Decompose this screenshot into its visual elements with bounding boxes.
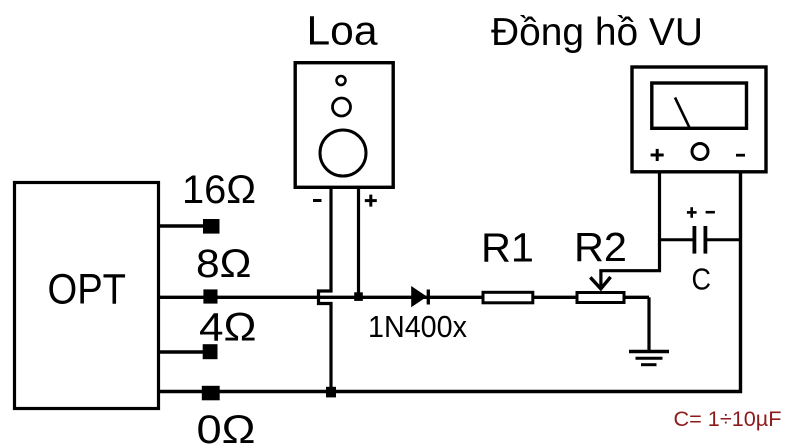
- label speaker minus: [313, 199, 322, 202]
- wire VU plus to capacitor C: [660, 238, 694, 241]
- diode D 1N400x: [411, 286, 427, 307]
- wire 16Ω tap: [158, 224, 206, 227]
- speaker tweeter circle: [337, 76, 346, 85]
- VU meter needle: [675, 98, 690, 129]
- svg-text:8Ω: 8Ω: [196, 242, 252, 286]
- label speaker plus: [365, 195, 377, 207]
- terminal 4Ω: [203, 344, 218, 359]
- svg-text:R2: R2: [574, 224, 627, 270]
- svg-text:1N400x: 1N400x: [368, 310, 467, 344]
- wire 4Ω tap: [158, 350, 206, 353]
- VU meter minus terminal mark: [736, 154, 745, 157]
- junction speaker minus on 0Ω rail: [326, 387, 336, 398]
- resistor R1: [483, 292, 533, 303]
- svg-text:0Ω: 0Ω: [197, 408, 256, 446]
- wire capacitor C to VU minus: [707, 238, 741, 241]
- svg-text:R1: R1: [481, 225, 534, 271]
- capacitor C minus label: [706, 211, 715, 214]
- wire 8Ω main signal line: [158, 296, 649, 299]
- wire 0Ω ground rail to VU meter minus: [158, 171, 741, 392]
- terminal 8Ω: [203, 289, 217, 303]
- svg-text:Loa: Loa: [307, 8, 378, 54]
- potentiometer R2 body: [577, 293, 624, 303]
- VU meter screw circle: [692, 144, 708, 160]
- terminal 0Ω: [202, 386, 220, 401]
- VU meter outer box: [632, 67, 766, 172]
- svg-text:16Ω: 16Ω: [182, 168, 256, 212]
- wire speaker plus to 8Ω line: [357, 189, 360, 297]
- speaker Loa box: [295, 63, 393, 188]
- svg-text:C: C: [692, 262, 712, 297]
- svg-text:4Ω: 4Ω: [199, 306, 257, 350]
- VU meter plus terminal mark: [651, 149, 664, 161]
- potentiometer R2 wiper arrowhead: [590, 277, 610, 289]
- wire speaker minus with crossover jog to 0Ω rail: [319, 189, 332, 392]
- svg-text:OPT: OPT: [48, 267, 127, 314]
- svg-text:Đồng hồ VU: Đồng hồ VU: [491, 11, 703, 54]
- speaker mid circle: [333, 98, 351, 116]
- transformer OPT box: [15, 183, 159, 409]
- svg-text:C= 1÷10µF: C= 1÷10µF: [674, 407, 782, 431]
- wire R2 right to ground: [647, 297, 650, 351]
- capacitor C plates: [694, 226, 705, 254]
- speaker woofer circle: [320, 130, 366, 176]
- junction speaker plus on 8Ω line: [354, 292, 363, 301]
- terminal 16Ω: [203, 219, 220, 234]
- wire R2 wiper to VU meter plus: [601, 171, 660, 287]
- capacitor C plus label: [687, 207, 697, 218]
- VU meter face: [652, 83, 747, 128]
- ground: [629, 352, 669, 365]
